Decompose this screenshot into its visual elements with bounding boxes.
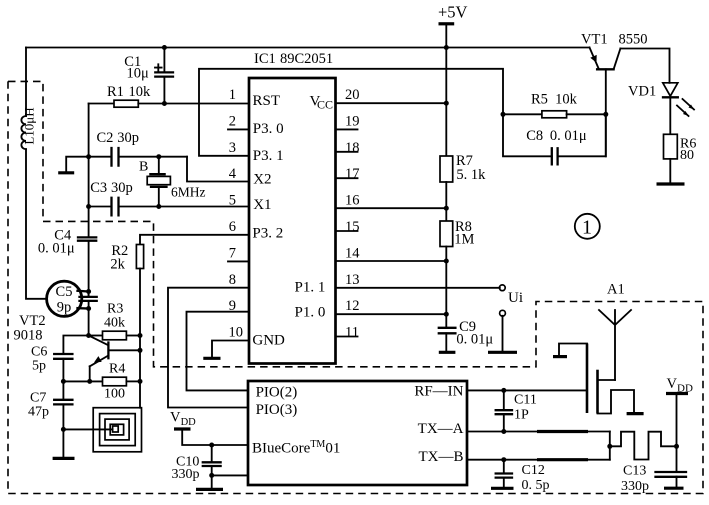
svg-text:V: V [170,410,181,426]
capacitor C10 330p [172,445,249,489]
svg-text:12: 12 [345,298,360,314]
svg-text:C6: C6 [31,345,47,360]
svg-text:R4: R4 [109,362,125,377]
svg-text:1: 1 [229,87,236,103]
svg-text:80: 80 [680,148,694,163]
svg-text:PIO(2): PIO(2) [256,384,298,400]
wire TX-B [467,459,610,461]
BlueCore module box [248,381,467,485]
node C5 top stub [86,289,91,294]
svg-text:5. 1k: 5. 1k [456,167,486,183]
svg-text:C7: C7 [30,391,46,406]
node meander to VDD line [674,444,679,449]
svg-text:R5: R5 [531,91,548,107]
svg-text:3: 3 [229,140,236,156]
LED VD1 [628,83,694,135]
node C10 bottom [209,473,214,478]
svg-text:5p: 5p [32,359,46,374]
svg-text:6MHz: 6MHz [171,185,206,200]
svg-text:16: 16 [345,193,360,209]
svg-text:0. 5p: 0. 5p [522,478,550,493]
svg-text:19: 19 [345,113,360,129]
capacitor C4 0.01u [38,227,96,296]
pin 7 stub [228,260,249,262]
resistor R4 100 [63,362,140,402]
resistor R7 5.1k [440,153,486,221]
svg-text:13: 13 [345,272,360,288]
IC1 89C2051 box [249,51,336,364]
node C11 top [501,388,506,393]
capacitor C12 0.5p [491,460,550,493]
svg-text:C8: C8 [526,128,543,144]
svg-text:CC: CC [317,98,333,112]
svg-text:47p: 47p [28,405,49,420]
resistor R8 1M [440,219,475,328]
node pin12 [444,312,449,317]
svg-text:GND: GND [252,332,285,348]
spiral antenna coil [63,408,141,452]
svg-text:RST: RST [253,93,281,109]
resistor R5 10k [503,91,606,117]
VDD supply left [170,410,248,446]
node C1 top [162,45,167,50]
svg-text:P1. 1: P1. 1 [295,279,326,295]
svg-text:C5: C5 [56,284,73,300]
svg-text:330p: 330p [172,467,200,482]
svg-text:30p: 30p [117,130,139,146]
node C7 spiral tap [61,427,66,432]
transistor VT2 9018 [14,313,141,381]
IC right pin labels [295,94,334,321]
svg-text:C11: C11 [514,393,537,408]
svg-text:9p: 9p [57,300,72,316]
FET matching transistor structure [553,344,644,414]
wire jog to pin4 X2 [187,157,249,182]
svg-text:0. 01μ: 0. 01μ [550,128,587,144]
capacitor C7 47p [28,391,72,457]
svg-text:C12: C12 [522,463,545,478]
node R4 right [138,379,143,384]
svg-text:11: 11 [345,325,359,341]
antenna [599,310,631,380]
svg-text:17: 17 [345,166,360,182]
svg-text:B: B [139,160,148,175]
crystal B 6MHz [139,157,206,207]
trimmer capacitor C5 9p [47,281,97,335]
svg-text:0. 01μ: 0. 01μ [456,332,493,348]
node C10 top [209,443,214,448]
svg-text:L10μH: L10μH [22,107,37,144]
svg-text:10k: 10k [555,91,578,107]
svg-text:14: 14 [345,245,360,261]
capacitor C6 5p [31,345,72,400]
svg-text:X2: X2 [253,172,271,188]
node pin14 [444,259,449,264]
node R3 right [138,333,143,338]
resistor R6 80 [664,134,697,182]
node C5 bottom stub [86,306,91,311]
IC left pin labels [252,93,285,348]
capacitor C11 1P [496,390,537,431]
node crystal bottom [156,204,161,209]
wire VT1 collector to VD1 [620,49,669,83]
pin 12 wire [336,313,447,315]
svg-text:VD1: VD1 [628,84,656,100]
pin 10 ground [203,341,249,359]
svg-text:P1. 0: P1. 0 [295,305,326,321]
svg-text:BIueCoreTM01: BIueCoreTM01 [252,439,340,457]
svg-text:TX—A: TX—A [418,421,464,437]
pin 20 wire to +5V [336,102,447,104]
dashed module boundary [8,81,703,493]
pin 14 wire [336,260,447,262]
svg-text:8550: 8550 [619,32,648,48]
svg-text:C2: C2 [97,130,114,146]
wire VT1 base down [605,69,607,156]
wire left vertical from rail to inductor [25,48,27,117]
node C6/C7 R4 tap [61,379,66,384]
svg-text:2: 2 [229,113,236,129]
wire C6 top corner [63,336,88,355]
svg-text:C13: C13 [623,464,646,479]
wire vertical x=88.6 from R1 down [88,104,90,238]
node pin16 [444,206,449,211]
svg-text:8: 8 [229,272,236,288]
resistor R2 2k vertical [110,235,249,408]
svg-text:100: 100 [104,387,125,402]
pin numbers left [229,87,244,341]
+5V supply [438,2,468,156]
svg-text:40k: 40k [104,316,125,331]
pin 16 wire [336,207,447,209]
svg-text:P3. 1: P3. 1 [253,148,284,164]
capacitor C8 0.01u [503,114,606,164]
svg-text:P3. 2: P3. 2 [252,226,283,242]
svg-text:10: 10 [229,325,244,341]
svg-text:C3: C3 [90,180,107,196]
pin 8 wire to PIO(3) [168,288,249,408]
ground under R6 [657,182,685,185]
svg-text:2k: 2k [110,257,125,273]
svg-text:18: 18 [345,140,360,156]
svg-text:1P: 1P [514,408,529,423]
pin 13 wire to Ui [336,287,500,289]
capacitor C9 0.01u [439,319,494,352]
node crystal top [156,154,161,159]
transistor VT1 8550 [581,32,648,70]
svg-text:6: 6 [229,219,236,235]
resistor R3 40k [89,302,140,340]
svg-text:1M: 1M [454,232,474,248]
svg-text:1: 1 [582,216,592,238]
ground under C7 [53,457,75,460]
wire TX-A TX-B join vertical [609,432,611,460]
node C2 junction [86,154,91,159]
svg-text:P3. 0: P3. 0 [253,121,284,137]
node VT2 emitter bottom [87,379,92,384]
svg-text:89C2051: 89C2051 [280,51,333,67]
node C1 bottom [162,101,167,106]
pin 9 wire to PIO(2) [187,312,250,391]
svg-text:0. 01μ: 0. 01μ [38,240,75,256]
node VT2 base-top [86,333,91,338]
svg-text:DD: DD [181,417,197,428]
node C11 bottom on TX-A [501,429,506,434]
svg-text:R3: R3 [107,302,123,317]
svg-text:Ui: Ui [508,290,523,306]
svg-text:+5V: +5V [438,2,468,21]
VDD supply right [666,376,693,472]
svg-text:R1: R1 [107,84,124,100]
svg-text:A1: A1 [607,282,625,298]
meander line C13 [610,432,677,494]
ground at C2 left [58,157,88,173]
resistor R1 10k [89,84,249,107]
capacitor C2 30p [89,130,187,166]
wire top +5V rail [26,47,590,49]
wire TX-A [467,431,610,433]
svg-text:30p: 30p [111,180,133,196]
pin 2 stub [228,128,249,130]
svg-text:20: 20 [345,87,360,103]
node pin20 [444,101,449,106]
svg-text:4: 4 [229,166,237,182]
pin stubs 19 18 17 15 11 [336,129,358,336]
svg-text:TX—B: TX—B [419,449,464,465]
node meander start [607,444,612,449]
terminal Ui return with ground [488,310,517,352]
bypass capacitor at VDD right [656,472,687,488]
svg-text:7: 7 [229,245,236,261]
node R5 left [501,112,506,117]
capacitor C1 10u polarized [124,48,173,104]
pin numbers right [345,87,360,341]
svg-text:VT1: VT1 [581,32,608,48]
svg-text:330p: 330p [621,479,649,494]
label A1 [607,282,625,298]
svg-text:9018: 9018 [14,328,43,344]
svg-text:IC1: IC1 [254,51,276,67]
svg-text:10k: 10k [129,84,152,100]
node C3 left [86,204,91,209]
svg-text:PIO(3): PIO(3) [256,402,298,418]
svg-text:5: 5 [229,193,236,209]
svg-text:X1: X1 [253,197,271,213]
node R5 right [603,112,608,117]
svg-text:15: 15 [345,219,360,235]
terminal Ui [499,285,523,306]
node +5V rail [444,45,449,50]
node base lead [138,348,143,353]
svg-text:10μ: 10μ [127,66,150,82]
pin 3 wire P3.1 long rail [199,69,503,156]
inductor L1 10uH [21,107,36,149]
svg-text:V: V [667,376,678,392]
capacitor C3 30p [89,180,249,215]
wire inductor to C5 [26,149,46,299]
svg-text:RF—IN: RF—IN [414,384,463,400]
node C12 top on TX-B [501,457,506,462]
circled 1 figure marker [575,214,600,239]
wire RF-IN to FET gate [467,389,587,391]
